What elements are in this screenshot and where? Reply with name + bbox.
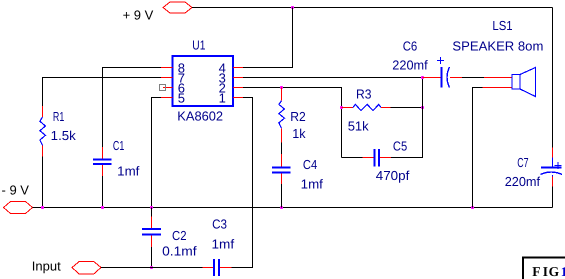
wire pin3 to C6 [243,77,423,79]
svg-text:1mf: 1mf [212,236,235,251]
svg-text:1.5k: 1.5k [51,128,77,143]
wire C7 to rail [552,187,554,208]
capacitor C4 labels [301,157,324,191]
node +9V label [123,8,154,23]
capacitor C5 labels [376,139,410,184]
svg-text:R1: R1 [53,109,64,124]
svg-text:C4: C4 [303,157,317,172]
resistor R1 [40,106,46,157]
wire C4 to rail [281,184,283,208]
svg-text:220mf: 220mf [392,58,428,73]
capacitor C1 labels [113,138,140,179]
svg-text:+ 9 V: + 9 V [123,8,154,23]
svg-text:R3: R3 [356,87,372,102]
wire speaker return [473,88,483,208]
capacitor C2 labels [162,228,197,259]
svg-text:C6: C6 [403,39,418,54]
resistor R2 [279,88,285,143]
wire R1 to rail [42,157,44,208]
svg-text:Input: Input [32,258,61,273]
junction rail/C1 [101,206,104,209]
wire -9V rail [33,207,553,209]
capacitor C7 [541,148,563,187]
port -9V [4,202,33,214]
junction pin2/R2 [280,86,283,89]
junction R3/C5 right [421,106,424,109]
svg-text:SPEAKER 8om: SPEAKER 8om [452,38,543,53]
svg-text:0.1mf: 0.1mf [162,244,197,259]
resistor R1 labels [51,109,77,143]
wire R2 to C4 [281,143,283,155]
title block FIG 1 [523,258,565,279]
capacitor C6 labels [392,39,428,73]
wire pin5 down [152,98,162,208]
node Input label [32,258,61,273]
svg-text:C1: C1 [113,138,124,153]
svg-text:1mf: 1mf [117,164,140,179]
wire C5 row [342,157,363,159]
junction pin3/C5 [421,76,424,79]
no-connect marker pin 6 [160,85,166,91]
svg-text:- 9 V: - 9 V [2,183,30,198]
pin 6 [163,80,185,95]
capacitor C3 [203,259,232,276]
op-amp U1 designator [192,37,205,52]
svg-text:220mf: 220mf [505,174,541,189]
port Input [72,262,101,274]
junction rail/R1 [41,206,44,209]
wire pin8 to C1 [103,68,162,148]
resistor R3 [342,104,391,110]
node -9V label [2,183,30,198]
wire C3 to pin1 [232,98,253,268]
port +9V [163,2,192,13]
capacitor C6 [423,57,463,88]
svg-text:470pf: 470pf [376,168,410,183]
wire +9V rail [192,7,553,9]
capacitor C5 [363,149,392,167]
junction rail/speaker return [471,206,474,209]
capacitor C3 labels [212,216,235,251]
pin 1 [219,90,243,105]
junction rail/C4 [280,206,283,209]
resistor R2 labels [290,109,306,141]
svg-text:C2: C2 [172,228,187,243]
junction +9V/pin4 [291,6,294,9]
junction rail/C2 [150,206,153,209]
capacitor C4 [272,154,291,184]
wire C2 to input net [151,247,153,268]
svg-text:KA8602: KA8602 [177,108,223,123]
svg-text:FIG: FIG [532,264,559,279]
pin 8 [161,60,185,75]
capacitor C1 [93,147,112,176]
wire R3 to C5 loop right [391,107,423,109]
pin 5 [161,90,185,105]
junction pin2/R3 [340,106,343,109]
svg-text:U1: U1 [192,37,205,52]
svg-text:5: 5 [178,90,185,105]
capacitor C2 [142,208,161,248]
svg-text:C5: C5 [393,139,407,154]
wire pin7 to R1 [43,78,162,107]
svg-text:C3: C3 [212,216,227,231]
svg-text:C7: C7 [517,155,528,170]
wire C6 to speaker [462,77,484,79]
svg-text:1mf: 1mf [301,177,324,192]
resistor R3 labels [348,87,372,134]
svg-text:1k: 1k [292,126,306,141]
pin 4 [219,60,243,75]
speaker LS1 body [512,68,536,97]
junction input/C2 [150,266,153,269]
wire Input to C3 [101,267,203,269]
op-amp U1 body [173,56,234,106]
speaker LS1 pin bottom [483,87,512,89]
svg-text:LS1: LS1 [492,18,512,33]
wire C1 to rail [102,176,104,208]
pin 2 [219,80,243,95]
wire pin4 to +9V [243,8,293,68]
op-amp U1 value KA8602 [177,108,223,123]
speaker LS1 pin top [484,77,512,79]
svg-text:1: 1 [561,264,565,279]
wire +9V to C7 [552,8,554,148]
svg-text:1: 1 [219,90,226,105]
wire C5 to pin3 net [391,78,423,158]
wire pin2 net [243,88,342,158]
svg-text:51k: 51k [348,119,369,134]
capacitor C7 labels [505,155,541,189]
pin 3 [219,70,243,85]
pin 7 [161,70,185,85]
speaker LS1 labels [452,18,543,53]
svg-text:R2: R2 [290,109,306,124]
